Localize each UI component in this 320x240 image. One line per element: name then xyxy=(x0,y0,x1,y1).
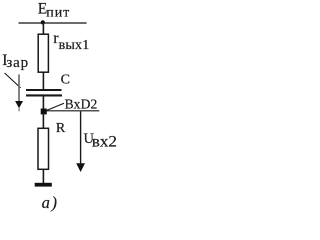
voltage arrow U_вх2 head xyxy=(76,163,85,172)
capacitor C bottom plate xyxy=(26,94,62,96)
label I_зар xyxy=(2,52,29,71)
voltage arrow U_вх2 line xyxy=(80,111,82,164)
label r_вых1 xyxy=(53,30,89,53)
resistor R1 (r_вых1) xyxy=(38,34,48,72)
power rail Eпит xyxy=(19,22,87,24)
resistor R xyxy=(38,128,49,169)
wire r_вых1 to capacitor C xyxy=(42,72,44,89)
leader line (underline) to label ВхD2 xyxy=(46,110,99,112)
svg-text:зар: зар xyxy=(6,55,28,71)
label U_вх2 xyxy=(84,131,118,150)
svg-text:вых1: вых1 xyxy=(59,38,90,53)
svg-text:пит: пит xyxy=(46,5,70,20)
svg-text:вх2: вх2 xyxy=(92,133,117,150)
wire rail to resistor r_вых1 xyxy=(42,23,44,34)
wire capacitor C to node ВхD2 xyxy=(42,96,44,110)
junction dot on rail xyxy=(41,20,45,24)
ground bar xyxy=(35,183,52,187)
wire resistor R to ground xyxy=(42,169,44,183)
current arrow I_зар line xyxy=(18,74,20,101)
capacitor C top plate xyxy=(26,89,62,91)
svg-text:а): а) xyxy=(42,193,59,212)
leader diagonal to label ВхD2 xyxy=(46,103,64,111)
svg-text:R: R xyxy=(56,121,66,136)
current arrow I_зар tail stub xyxy=(18,108,20,111)
leader diagonal from I_зар label xyxy=(5,73,21,88)
svg-text:ВхD2: ВхD2 xyxy=(65,97,98,112)
node ВхD2 junction square xyxy=(41,109,47,115)
net label E_пит xyxy=(38,1,70,21)
current arrow I_зар head xyxy=(15,101,23,108)
wire node to resistor R xyxy=(42,113,44,128)
svg-text:C: C xyxy=(61,73,70,88)
